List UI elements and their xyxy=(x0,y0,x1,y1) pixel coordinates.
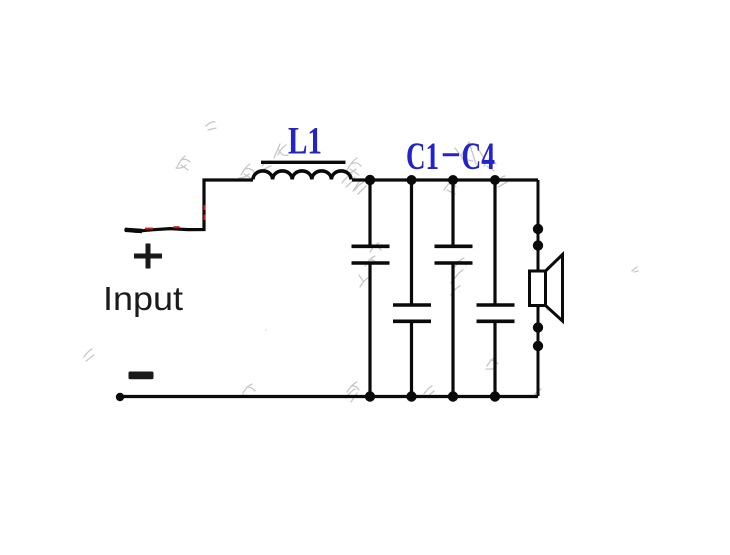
capacitor C2 xyxy=(393,180,431,396)
decorative watermark smudges (unlabeled, drawn first) xyxy=(84,122,638,402)
wire: input top lead with step xyxy=(125,180,254,231)
svg-text:C4: C4 xyxy=(462,135,496,178)
inductor L1 xyxy=(253,171,351,180)
wire: top bus xyxy=(352,178,538,181)
node: top junction 2 xyxy=(407,175,417,185)
wire: speaker branch xyxy=(537,180,540,396)
label: plus terminal xyxy=(134,244,162,269)
node: speaker lower dot 2 xyxy=(533,341,543,351)
node: top junction 1 xyxy=(365,175,375,185)
svg-text:L1: L1 xyxy=(288,120,322,163)
capacitor C1 xyxy=(352,180,390,396)
node: bottom junction 2 xyxy=(406,391,416,401)
red marks on input wire xyxy=(145,205,205,229)
capacitor C4 xyxy=(477,180,515,396)
label L1 xyxy=(288,120,322,163)
node: top junction 4 xyxy=(490,175,500,185)
capacitor C3 xyxy=(435,180,473,396)
label C1-C4 xyxy=(406,135,495,178)
node: speaker upper dot 1 xyxy=(533,224,543,234)
speaker LS1 xyxy=(530,255,563,322)
inductor core bar xyxy=(261,161,346,164)
label: Input xyxy=(103,280,183,317)
svg-text:Input: Input xyxy=(103,280,183,317)
node: top junction 3 xyxy=(448,175,458,185)
node: bottom left terminal xyxy=(116,393,124,401)
svg-text:C1: C1 xyxy=(406,135,439,178)
node: bottom junction 4 xyxy=(490,391,500,401)
label: minus terminal xyxy=(129,372,154,380)
node: speaker upper dot 2 xyxy=(533,240,543,250)
node: bottom junction 3 xyxy=(448,391,458,401)
wire: bottom bus xyxy=(119,395,538,398)
node: speaker lower dot 1 xyxy=(533,322,543,332)
node: bottom junction 1 xyxy=(365,391,375,401)
